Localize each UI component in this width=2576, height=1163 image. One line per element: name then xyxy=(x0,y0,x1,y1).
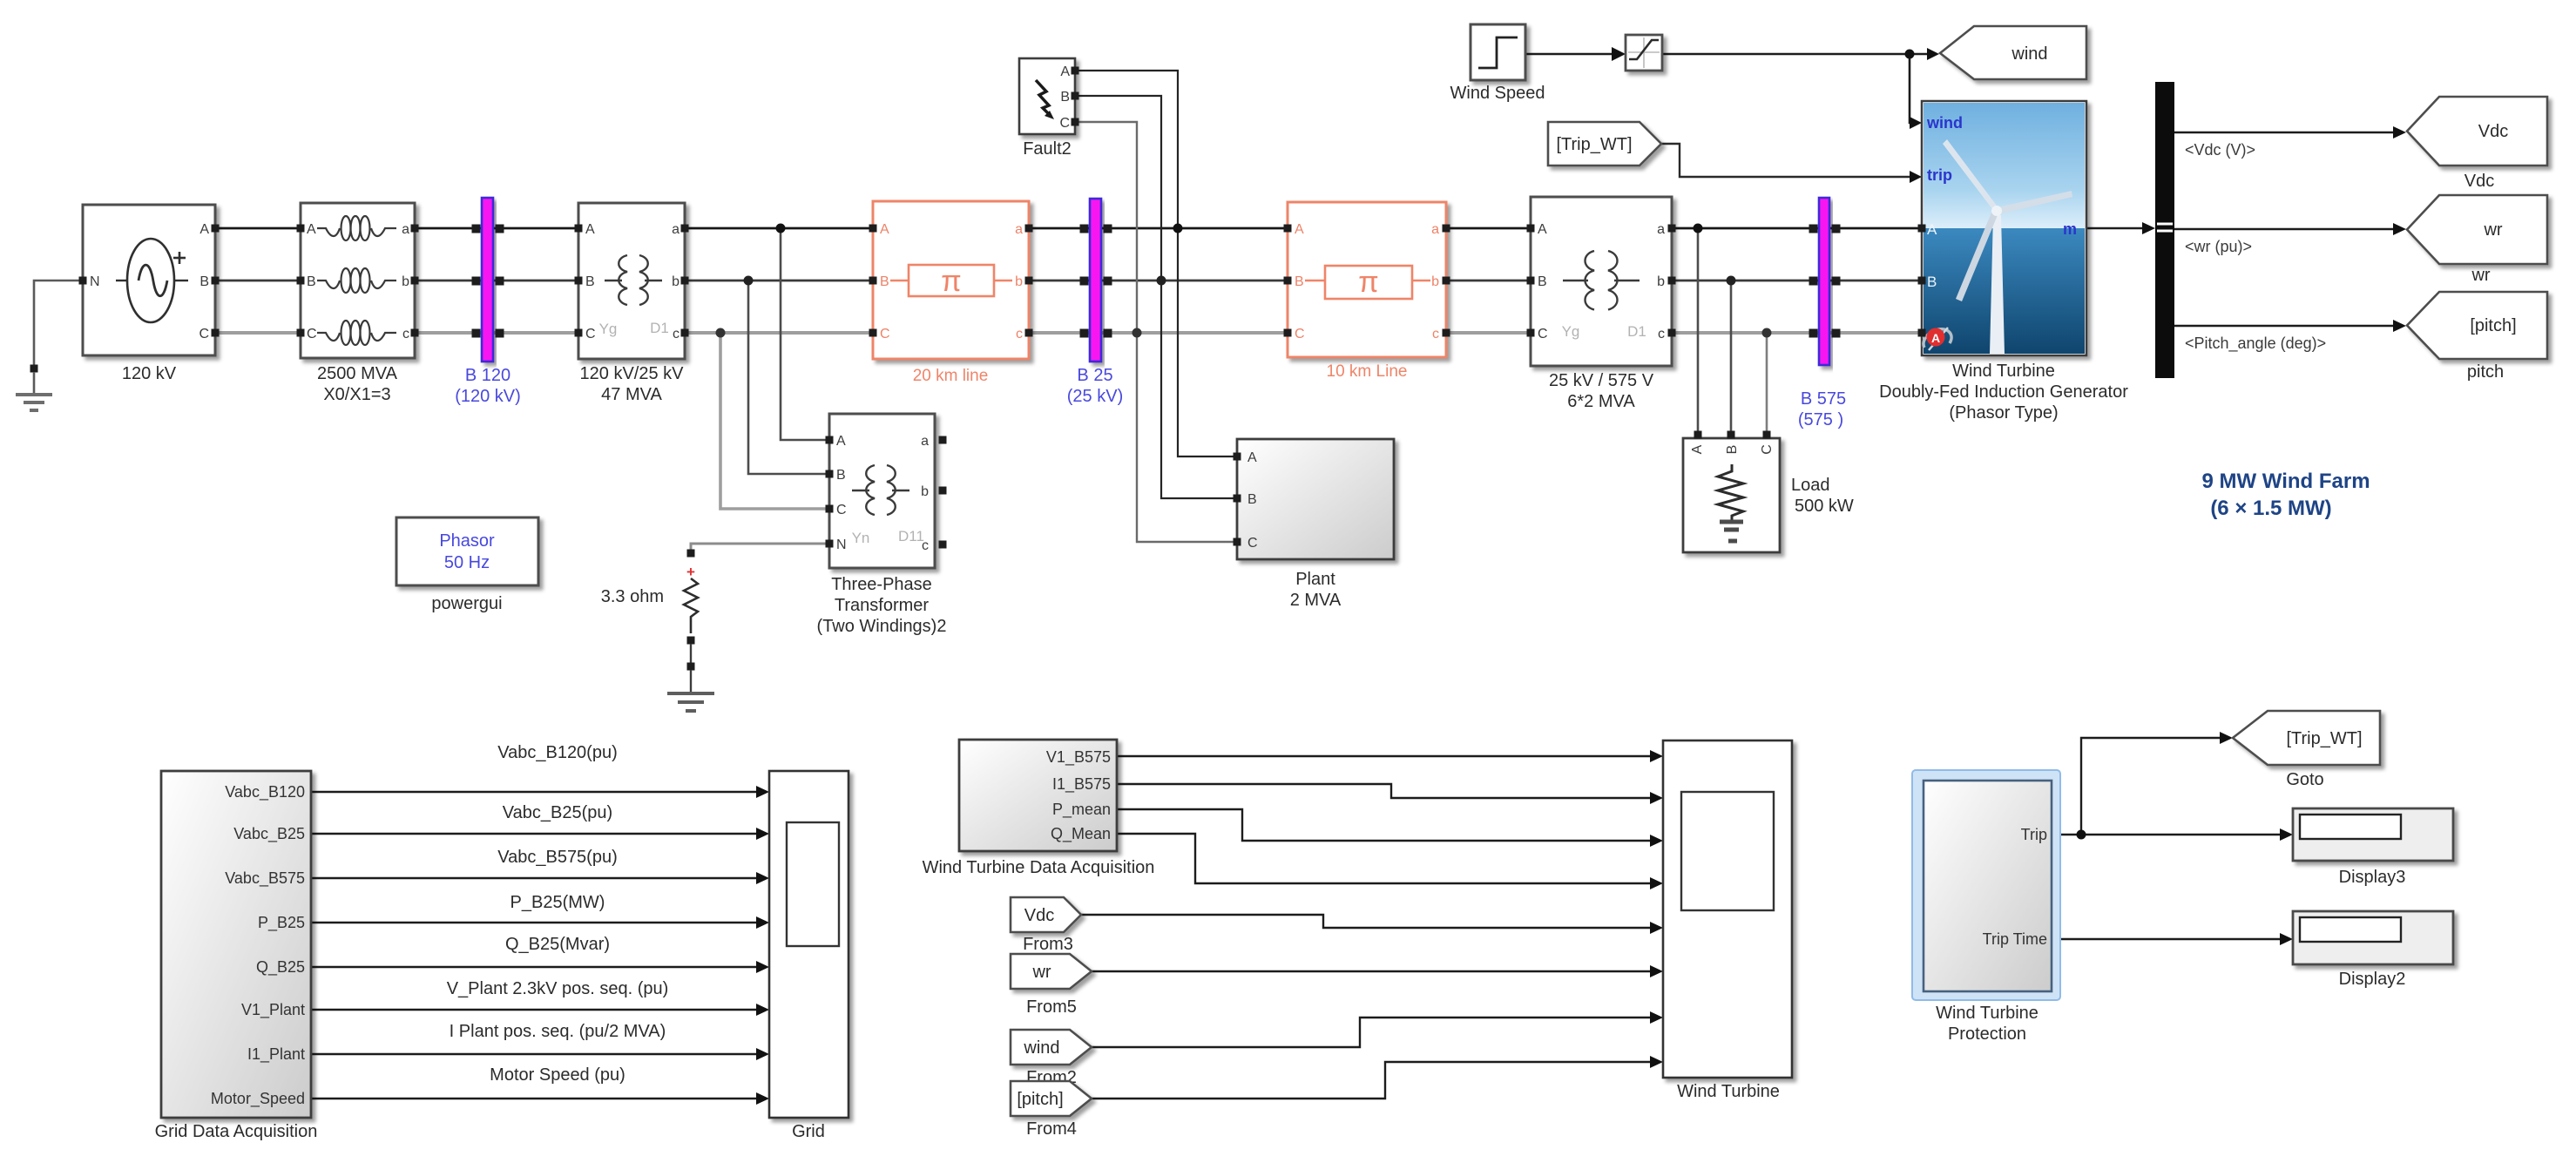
svg-text:pitch: pitch xyxy=(2467,362,2504,382)
From tag Vdc (From3) xyxy=(1011,897,1081,954)
wire branch phase b down to Load port B xyxy=(1730,281,1733,433)
svg-text:A: A xyxy=(1690,444,1705,454)
svg-text:wr: wr xyxy=(1031,963,1051,982)
wire WTP Trip Time to Display2 xyxy=(2052,933,2293,945)
signal name V_Plant 2.3kV pos. seq. (pu) xyxy=(447,979,669,998)
wire WTDA P_mean to Wind Turbine scope xyxy=(1117,809,1663,847)
wire Wind Turbine m output to bus selector xyxy=(2086,222,2155,234)
svg-text:X0/X1=3: X0/X1=3 xyxy=(323,385,390,404)
svg-text:6*2 MVA: 6*2 MVA xyxy=(1567,392,1635,411)
resistor 3.3 ohm with ground xyxy=(601,550,714,712)
wire From [Trip_WT] to Wind Turbine trip input xyxy=(1661,144,1922,183)
Grid scope block xyxy=(769,771,849,1141)
svg-text:C: C xyxy=(1247,536,1258,551)
svg-text:N: N xyxy=(90,274,100,289)
wire bus selector Pitch_angle output to pitch Goto xyxy=(2174,320,2406,332)
svg-text:trip: trip xyxy=(1927,166,1952,184)
svg-text:Trip: Trip xyxy=(2021,826,2047,843)
Saturation block xyxy=(1626,35,1662,71)
svg-text:V1_Plant: V1_Plant xyxy=(241,1001,305,1019)
wire branch phase c down to Load port C xyxy=(1766,333,1768,433)
svg-text:Q_Mean: Q_Mean xyxy=(1051,825,1111,843)
svg-text:V1_B575: V1_B575 xyxy=(1046,748,1111,767)
svg-text:10 km Line: 10 km Line xyxy=(1327,362,1408,381)
junction node fault tap phase B xyxy=(1157,276,1166,286)
svg-text:25 kV / 575 V: 25 kV / 575 V xyxy=(1549,371,1654,390)
svg-text:A: A xyxy=(836,434,846,449)
svg-text:Vdc: Vdc xyxy=(2464,172,2494,191)
wire Three-Phase Transformer 2 neutral N to 3.3 ohm resistor xyxy=(691,544,829,551)
svg-text:c: c xyxy=(1432,327,1439,341)
wire branch B down to Three-Phase Transformer 2 port B xyxy=(748,281,829,474)
Load 500 kW xyxy=(1683,431,1854,553)
svg-text:B: B xyxy=(199,274,209,289)
wire Grid DAQ Vabc_B25 to Grid scope xyxy=(311,828,769,840)
wire Fault2 B to phase-B tap and down to Plant B xyxy=(1075,96,1237,498)
wire bus selector wr output to wr Goto xyxy=(2174,223,2406,235)
svg-text:Protection: Protection xyxy=(1948,1024,2026,1044)
svg-text:Motor Speed (pu): Motor Speed (pu) xyxy=(490,1065,625,1085)
svg-text:B: B xyxy=(836,468,846,483)
wire phase A: 2500 MVA to B120 to transformer 47MVA xyxy=(415,227,578,230)
svg-text:Vabc_B120: Vabc_B120 xyxy=(225,783,305,801)
bus bar B 25 (25 kV) xyxy=(1067,199,1123,406)
svg-text:120 kV/25 kV: 120 kV/25 kV xyxy=(580,364,685,383)
svg-text:2500 MVA: 2500 MVA xyxy=(317,364,398,383)
svg-text:b: b xyxy=(402,274,409,289)
svg-text:B: B xyxy=(1725,445,1740,455)
svg-text:C: C xyxy=(199,327,209,341)
junction node wind signal xyxy=(1905,50,1915,59)
svg-text:wind: wind xyxy=(2011,44,2047,64)
svg-text:D11: D11 xyxy=(898,528,924,544)
wire branch C down to Three-Phase Transformer 2 port C xyxy=(720,333,829,509)
svg-text:c: c xyxy=(402,327,409,341)
svg-text:b: b xyxy=(1431,274,1439,289)
svg-text:A: A xyxy=(1931,331,1940,345)
svg-text:A: A xyxy=(585,222,595,237)
From tag wind (From2) xyxy=(1011,1030,1092,1087)
svg-text:Vdc: Vdc xyxy=(2478,122,2508,141)
svg-text:D1: D1 xyxy=(650,320,669,336)
svg-text:a: a xyxy=(1015,222,1023,237)
svg-text:a: a xyxy=(672,222,679,237)
svg-text:B: B xyxy=(880,274,889,289)
svg-text:Wind Speed: Wind Speed xyxy=(1450,84,1545,103)
wire WTDA V1_B575 to Wind Turbine scope xyxy=(1117,750,1663,762)
svg-text:B: B xyxy=(1060,90,1070,105)
svg-text:Goto: Goto xyxy=(2286,770,2323,789)
Display2 block xyxy=(2293,911,2453,989)
svg-text:<wr (pu)>: <wr (pu)> xyxy=(2185,238,2252,255)
Goto tag [Trip_WT] (bottom) xyxy=(2233,711,2380,789)
svg-text:500 kW: 500 kW xyxy=(1795,497,1854,516)
svg-text:A: A xyxy=(307,222,316,237)
svg-text:Wind Turbine: Wind Turbine xyxy=(1677,1082,1780,1101)
svg-text:I Plant pos. seq. (pu/2 MVA): I Plant pos. seq. (pu/2 MVA) xyxy=(450,1022,666,1041)
svg-text:N: N xyxy=(836,538,847,552)
svg-text:[pitch]: [pitch] xyxy=(2470,316,2516,335)
Fault2 block xyxy=(1019,58,1079,159)
svg-text:A: A xyxy=(199,222,209,237)
svg-text:B 120: B 120 xyxy=(465,366,510,385)
svg-text:Vdc: Vdc xyxy=(1024,906,1054,925)
svg-text:Yg: Yg xyxy=(1562,323,1580,340)
svg-text:c: c xyxy=(1016,327,1023,341)
svg-text:[Trip_WT]: [Trip_WT] xyxy=(1556,135,1632,154)
Goto tag wind (top) xyxy=(1940,26,2086,79)
svg-text:A: A xyxy=(1295,222,1304,237)
junction node on phase A at x896 xyxy=(776,224,786,233)
svg-text:a: a xyxy=(1657,222,1665,237)
svg-text:A: A xyxy=(1927,221,1937,238)
wire Fault2 A to phase-A tap and down to Plant A xyxy=(1075,71,1237,456)
wire Grid DAQ I1_Plant to Grid scope xyxy=(311,1048,769,1060)
wire Wind Speed step to Saturation xyxy=(1525,47,1626,61)
wire Grid DAQ V1_Plant to Grid scope xyxy=(311,1004,769,1016)
svg-text:Motor_Speed: Motor_Speed xyxy=(211,1090,305,1108)
voltage source 120 kV xyxy=(79,205,220,383)
svg-text:C: C xyxy=(880,327,890,341)
svg-text:From5: From5 xyxy=(1026,997,1077,1017)
wire phase A: 10 km Line to transformer 25kV/575V xyxy=(1446,227,1531,230)
wire From4 [pitch] to Wind Turbine scope xyxy=(1092,1056,1663,1099)
bus bar B 120 (120 kV) xyxy=(455,198,521,406)
svg-text:A: A xyxy=(1060,64,1070,79)
wire Grid DAQ Vabc_B575 to Grid scope xyxy=(311,872,769,884)
svg-text:(575 ): (575 ) xyxy=(1798,410,1843,429)
wire Grid DAQ Motor_Speed to Grid scope xyxy=(311,1092,769,1105)
wire phase C row: 120kV source to 2500 MVA xyxy=(215,331,301,335)
svg-text:3.3 ohm: 3.3 ohm xyxy=(601,587,664,606)
svg-text:2 MVA: 2 MVA xyxy=(1290,591,1342,610)
wire phase A: transformer 25kV/575V to B575 to Wind Turbine xyxy=(1672,227,1922,230)
junction node on phase B at x859 xyxy=(744,276,754,286)
bus selector bar (black) xyxy=(2155,82,2326,378)
svg-text:wind: wind xyxy=(1023,1038,1059,1058)
svg-text:B 25: B 25 xyxy=(1077,366,1112,385)
wire phase B: 20 km line to B25 to 10 km Line xyxy=(1029,280,1288,282)
wire branch phase a down to Load port A xyxy=(1697,228,1700,433)
signal name Q_B25(Mvar) xyxy=(505,935,610,954)
wire Fault2 C to phase-C tap and down to Plant C xyxy=(1075,122,1237,542)
wire From5 wr to Wind Turbine scope xyxy=(1092,965,1663,977)
Grid Data Acquisition subsystem xyxy=(155,771,318,1141)
svg-text:(6 × 1.5 MW): (6 × 1.5 MW) xyxy=(2210,497,2331,520)
Display3 block xyxy=(2293,808,2453,887)
svg-text:a: a xyxy=(1431,222,1439,237)
junction node load tap phase A xyxy=(1694,224,1703,233)
svg-text:C: C xyxy=(1760,444,1775,455)
junction node Trip signal xyxy=(2077,830,2086,840)
wire Grid DAQ P_B25 to Grid scope xyxy=(311,916,769,929)
wire phase C: 10 km Line to transformer 25kV/575V xyxy=(1446,331,1531,335)
svg-text:Three-Phase: Three-Phase xyxy=(831,575,932,594)
wire Saturation to wind Goto tag with branch to Wind Turbine wind input xyxy=(1662,48,1939,129)
wire WTDA Q_Mean to Wind Turbine scope xyxy=(1117,834,1663,889)
svg-text:<Pitch_angle (deg)>: <Pitch_angle (deg)> xyxy=(2185,335,2326,353)
svg-text:C: C xyxy=(1059,116,1070,131)
svg-text:[pitch]: [pitch] xyxy=(1017,1090,1063,1109)
wire phase A row: 120kV source to 2500 MVA xyxy=(215,227,301,230)
From tag [Trip_WT] (top) xyxy=(1548,122,1661,166)
wire phase B: 2500 MVA to B120 to transformer 47MVA xyxy=(415,280,578,282)
Wind Turbine Data Acquisition subsystem xyxy=(923,740,1155,877)
wire phase A: transformer 47MVA to 20 km line xyxy=(685,227,873,230)
junction node load tap phase B xyxy=(1727,276,1736,286)
svg-text:D1: D1 xyxy=(1627,323,1646,340)
svg-text:Transformer: Transformer xyxy=(835,596,930,615)
svg-text:C: C xyxy=(307,327,317,341)
svg-text:Vabc_B25: Vabc_B25 xyxy=(233,825,305,843)
wire phase B: transformer 25kV/575V to B575 to Wind Turbine xyxy=(1672,280,1922,282)
svg-text:Phasor: Phasor xyxy=(439,531,495,551)
svg-text:P_B25: P_B25 xyxy=(258,914,305,932)
svg-text:(25 kV): (25 kV) xyxy=(1067,387,1123,406)
svg-text:wind: wind xyxy=(1926,114,1963,132)
wire phase C: 2500 MVA to B120 to transformer 47MVA xyxy=(415,331,578,335)
signal name Vabc_B575(pu) xyxy=(497,848,618,867)
svg-text:(120 kV): (120 kV) xyxy=(455,387,521,406)
10 km Line (pi section) xyxy=(1284,202,1450,381)
Goto tag [pitch] xyxy=(2407,292,2547,382)
junction node on phase C at x827 xyxy=(716,328,726,338)
wire phase B: transformer 47MVA to 20 km line xyxy=(685,280,873,282)
svg-text:P_B25(MW): P_B25(MW) xyxy=(510,893,605,912)
wire phase C: transformer 25kV/575V to B575 to Wind Turbine xyxy=(1672,331,1922,335)
signal name P_B25(MW) xyxy=(510,893,605,912)
svg-text:[Trip_WT]: [Trip_WT] xyxy=(2286,729,2362,748)
svg-text:m: m xyxy=(2063,220,2077,238)
svg-text:V_Plant 2.3kV pos. seq. (pu): V_Plant 2.3kV pos. seq. (pu) xyxy=(447,979,669,998)
junction node fault tap phase A xyxy=(1173,224,1183,233)
Wind Turbine DFIG block (photo icon) xyxy=(1879,101,2128,423)
svg-text:B: B xyxy=(585,274,595,289)
svg-text:(Two Windings)2: (Two Windings)2 xyxy=(817,617,947,636)
Goto tag Vdc xyxy=(2407,97,2547,191)
wire phase C: transformer 47MVA to 20 km line xyxy=(685,331,873,335)
svg-text:Q_B25: Q_B25 xyxy=(256,958,305,977)
svg-text:Wind Turbine: Wind Turbine xyxy=(1952,362,2055,381)
Plant 2 MVA subsystem xyxy=(1234,439,1395,610)
signal name I Plant pos. seq. (pu/2 MVA) xyxy=(450,1022,666,1041)
svg-text:b: b xyxy=(1657,274,1665,289)
svg-text:+: + xyxy=(686,564,695,580)
wire Grid DAQ Vabc_B120 to Grid scope xyxy=(311,786,769,798)
svg-text:wr: wr xyxy=(2471,266,2490,285)
svg-text:Plant: Plant xyxy=(1295,570,1335,589)
svg-text:<Vdc (V)>: <Vdc (V)> xyxy=(2185,141,2255,159)
svg-text:A: A xyxy=(1538,222,1547,237)
svg-text:(Phasor Type): (Phasor Type) xyxy=(1949,403,2058,423)
svg-text:b: b xyxy=(921,484,929,499)
svg-text:Vabc_B575: Vabc_B575 xyxy=(225,869,305,888)
svg-text:Display2: Display2 xyxy=(2339,970,2406,989)
wire bus selector Vdc output to Vdc Goto xyxy=(2174,126,2406,139)
wire Grid DAQ Q_B25 to Grid scope xyxy=(311,961,769,973)
junction node fault tap phase C xyxy=(1132,328,1142,338)
svg-text:Doubly-Fed Induction Generator: Doubly-Fed Induction Generator xyxy=(1879,382,2128,402)
svg-text:Q_B25(Mvar): Q_B25(Mvar) xyxy=(505,935,610,954)
svg-text:π: π xyxy=(941,265,961,298)
wire From2 wind to Wind Turbine scope xyxy=(1092,1011,1663,1047)
svg-text:c: c xyxy=(673,327,679,341)
svg-text:powergui: powergui xyxy=(431,594,502,613)
svg-text:c: c xyxy=(1658,327,1665,341)
svg-text:Load: Load xyxy=(1791,476,1830,495)
svg-text:π: π xyxy=(1358,266,1378,299)
svg-text:a: a xyxy=(402,222,409,237)
svg-text:Display3: Display3 xyxy=(2339,868,2406,887)
annotation 9 MW Wind Farm xyxy=(2201,470,2370,520)
transformer 25 kV / 575 V 6*2 MVA xyxy=(1527,197,1676,411)
svg-text:a: a xyxy=(921,434,929,449)
svg-text:Vabc_B575(pu): Vabc_B575(pu) xyxy=(497,848,618,867)
svg-text:20 km line: 20 km line xyxy=(913,367,989,385)
svg-text:wr: wr xyxy=(2483,220,2502,240)
svg-text:Wind Turbine Data Acquisition: Wind Turbine Data Acquisition xyxy=(923,858,1155,877)
svg-text:9 MW Wind Farm: 9 MW Wind Farm xyxy=(2201,470,2370,493)
signal name Vabc_B25(pu) xyxy=(503,803,612,822)
svg-text:Wind Turbine: Wind Turbine xyxy=(1936,1004,2038,1023)
svg-text:Yn: Yn xyxy=(852,530,870,546)
svg-text:47 MVA: 47 MVA xyxy=(601,385,662,404)
svg-text:Yg: Yg xyxy=(599,321,618,337)
svg-text:B: B xyxy=(1538,274,1547,289)
svg-text:From3: From3 xyxy=(1023,935,1073,954)
svg-text:Trip Time: Trip Time xyxy=(1983,930,2047,948)
svg-text:Fault2: Fault2 xyxy=(1023,139,1072,159)
Wind Turbine scope block xyxy=(1663,740,1792,1101)
wire phase B: 10 km Line to transformer 25kV/575V xyxy=(1446,280,1531,282)
svg-text:Vabc_B25(pu): Vabc_B25(pu) xyxy=(503,803,612,822)
From tag [pitch] (From4) xyxy=(1011,1081,1092,1139)
svg-text:B: B xyxy=(1247,492,1257,507)
svg-text:b: b xyxy=(672,274,679,289)
svg-text:C: C xyxy=(585,327,596,341)
svg-text:C: C xyxy=(1295,327,1305,341)
svg-text:From4: From4 xyxy=(1026,1119,1077,1139)
transformer 120 kV/25 kV 47 MVA xyxy=(575,203,689,404)
svg-text:Grid Data Acquisition: Grid Data Acquisition xyxy=(155,1122,318,1141)
From tag wr (From5) xyxy=(1011,954,1092,1017)
wire phase C: 20 km line to B25 to 10 km Line xyxy=(1029,331,1288,335)
svg-text:B: B xyxy=(1927,274,1937,290)
junction node load tap phase C xyxy=(1762,328,1772,338)
svg-text:I1_B575: I1_B575 xyxy=(1052,775,1111,794)
svg-text:A: A xyxy=(1247,450,1257,465)
wire branch A down to Three-Phase Transformer 2 port A xyxy=(781,228,829,440)
svg-text:C: C xyxy=(836,503,847,517)
svg-text:b: b xyxy=(1015,274,1023,289)
wire phase A: 20 km line to B25 to 10 km Line xyxy=(1029,227,1288,230)
signal name Motor Speed (pu) xyxy=(490,1065,625,1085)
svg-text:B: B xyxy=(1295,274,1304,289)
powergui Phasor 50 Hz xyxy=(396,517,538,613)
svg-text:C: C xyxy=(1538,327,1548,341)
svg-text:Grid: Grid xyxy=(792,1122,825,1141)
Wind Speed step block xyxy=(1450,24,1545,103)
svg-text:A: A xyxy=(880,222,889,237)
ground (source neutral) xyxy=(16,365,52,411)
source impedance 2500 MVA X0/X1=3 xyxy=(297,203,419,404)
Goto tag wr xyxy=(2407,195,2547,285)
wire WTDA I1_B575 to Wind Turbine scope xyxy=(1117,784,1663,804)
Three-Phase Transformer (Two Windings)2 xyxy=(817,414,947,636)
wire phase B row: 120kV source to 2500 MVA xyxy=(215,280,301,282)
svg-text:120 kV: 120 kV xyxy=(122,364,177,383)
signal name Vabc_B120(pu) xyxy=(497,743,618,762)
bus bar B 575 (575) xyxy=(1798,198,1846,429)
svg-text:P_mean: P_mean xyxy=(1052,801,1111,819)
svg-text:50 Hz: 50 Hz xyxy=(444,553,490,572)
wire neutral N: source to ground xyxy=(34,281,83,367)
svg-text:I1_Plant: I1_Plant xyxy=(247,1045,305,1064)
svg-text:Vabc_B120(pu): Vabc_B120(pu) xyxy=(497,743,618,762)
svg-text:B: B xyxy=(307,274,316,289)
svg-text:B 575: B 575 xyxy=(1801,389,1846,409)
Wind Turbine Protection subsystem (selected, blue highlight) xyxy=(1912,770,2060,1044)
wire WTP Trip to Goto [Trip_WT] and Display3 xyxy=(2052,732,2293,841)
wire From3 Vdc to Wind Turbine scope xyxy=(1081,915,1663,934)
20 km line (pi section) xyxy=(869,201,1033,385)
